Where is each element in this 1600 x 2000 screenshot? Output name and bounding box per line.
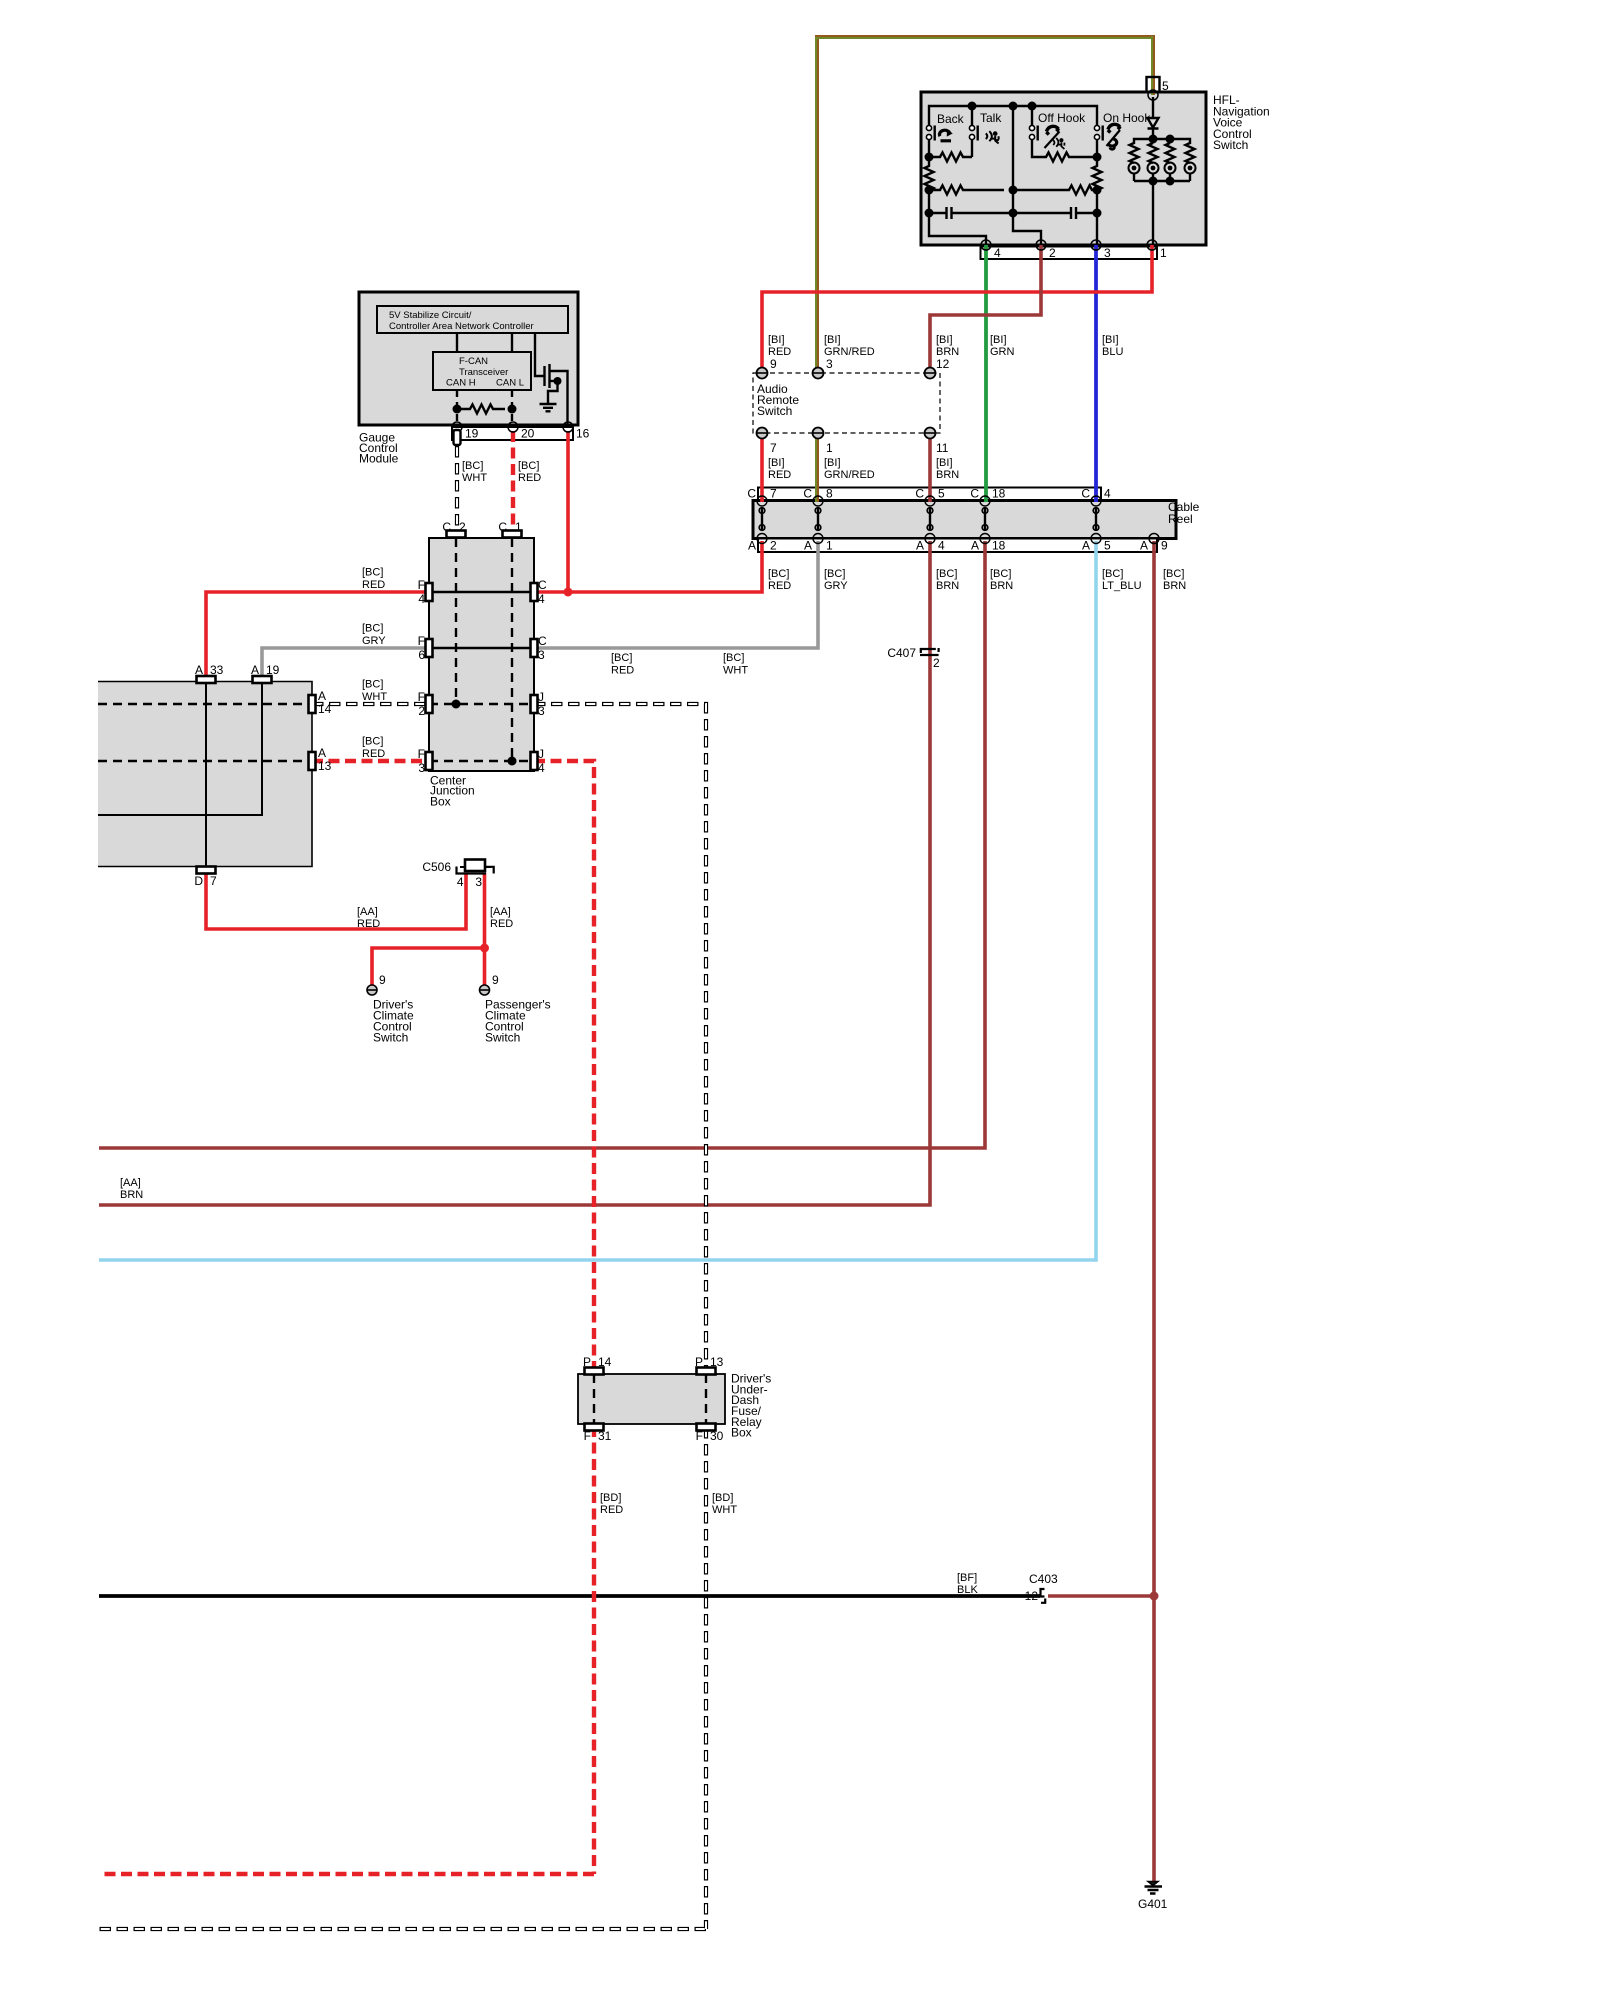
fuse box pin P13 [697,1368,716,1375]
left box pin A14 [309,695,316,713]
dashed wire C2 down [455,538,457,704]
cable reel C4/A5 terminals and pins [1091,496,1101,544]
capacitor (left, y=213) [929,207,1013,219]
junction (568,592) [564,588,573,597]
Gauge pin strip (pins 19,20,16) [452,427,573,440]
svg-text:A: A [916,539,924,553]
svg-text:BRN: BRN [936,469,959,481]
audio remote switch pin 12 [925,368,936,379]
svg-text:[BC]: [BC] [362,623,383,635]
dashed row to A14 [98,703,312,705]
svg-text:9: 9 [379,973,386,987]
terminal: passenger's climate control switch pin 9 [480,985,490,995]
wire [BI] BRN : audio pin11 to cable reel C5 [928,433,932,502]
svg-text:5: 5 [1162,79,1169,93]
svg-text:4: 4 [1104,487,1111,501]
svg-text:4: 4 [418,592,425,606]
fuse box pin F30 [697,1424,716,1431]
wire [BI] GRN/RED : audio pin3 to HFL pin5 (two-tone) [815,37,817,373]
wire [BI] GRN : HFL pin4 to cable reel C18 [984,245,988,502]
svg-text:[BI]: [BI] [768,457,785,469]
svg-text:C: C [915,487,924,501]
svg-text:6: 6 [418,648,425,662]
terminal HFL pin1 [1147,240,1157,250]
CJB pin J4 [531,752,538,770]
svg-text:1: 1 [515,520,522,534]
CJB pin C3 [531,639,538,657]
svg-text:F: F [418,690,425,704]
wire up to Talk switch [971,140,973,158]
wire [BC] BRN / [AA] BRN : cable reel A4 down through C407 to left edge [99,541,930,1205]
svg-text:[BC]: [BC] [824,568,845,580]
terminal gauge pin20 [508,422,518,432]
svg-text:[AA]: [AA] [490,906,511,918]
resistor (Back-Talk) [929,153,972,162]
Center Junction Box [429,538,534,771]
svg-text:BLK: BLK [957,1584,978,1596]
svg-text:[BC]: [BC] [1163,568,1184,580]
capacitor (right, y=213) [1013,207,1097,219]
wire 5V box to F-CAN (right) [511,333,513,352]
wire from Talk top to bus [971,106,973,126]
terminal circle pin5 [1148,90,1158,100]
svg-text:A: A [251,663,259,677]
svg-text:[BI]: [BI] [990,334,1007,346]
wire [BC] RED dashed : gauge pin20 to CJB C1 [511,431,515,530]
icon Back (return arrow) [940,130,951,141]
svg-text:Talk: Talk [980,111,1002,125]
resistor (horizontal bus y=190 right) [1013,186,1097,195]
wire F6-C3 [429,647,534,649]
switch Off Hook (contacts) [1031,106,1033,126]
left box pin D7 [197,867,216,874]
svg-text:13: 13 [318,759,332,773]
svg-text:1: 1 [1160,246,1167,260]
terminal: driver's climate control switch pin 9 [367,985,377,995]
svg-text:12: 12 [1025,1589,1039,1603]
svg-text:C: C [498,520,507,534]
audio remote switch pin 3 [813,368,824,379]
dashed wire F3-J4 [429,760,534,762]
svg-text:[BC]: [BC] [936,568,957,580]
icon On Hook (handset on cradle + slash) [1108,124,1121,132]
svg-text:P: P [583,1355,591,1369]
left box pin A13 [309,752,316,770]
CJB pin C2 [447,531,466,538]
svg-text:Controller Area Network Contro: Controller Area Network Controller [389,321,534,332]
svg-text:Box: Box [731,1426,752,1440]
resistor (Off Hook to On Hook column) [1032,140,1094,162]
left module box (partial, cut at page edge) [98,682,312,867]
svg-text:C: C [538,634,547,648]
wire from HFL pin5 to diode [1152,97,1154,117]
wire 5V box to transistor gate [535,333,544,376]
svg-text:F: F [418,578,425,592]
fuse box pin P14 [585,1368,604,1375]
wire left column 190-213 [928,190,930,213]
Cable Reel A pin strip [758,539,1157,553]
svg-text:[BC]: [BC] [723,652,744,664]
svg-text:9: 9 [770,357,777,371]
svg-text:30: 30 [710,1429,724,1443]
pin 19 connector stub [454,430,461,445]
svg-text:1: 1 [826,539,833,553]
transistor (output FET) [543,366,545,386]
svg-text:Reel: Reel [1168,512,1193,526]
terminal gauge pin19 [452,422,462,432]
CJB pin C4 [531,583,538,601]
resistor (vertical, Back branch) [925,157,934,194]
svg-text:J: J [538,690,544,704]
illumination branch 4: resistor + bulb [1186,143,1195,163]
svg-text:[BC]: [BC] [518,460,539,472]
Cable Reel box [753,501,1176,539]
wire F4-C4 [429,591,534,593]
svg-text:5: 5 [1104,539,1111,553]
wire [BC]/[BD] WHT dashed : CJB J3 to fuse box P13 and on to left edge [99,446,706,1929]
svg-text:13: 13 [710,1355,724,1369]
svg-text:4: 4 [457,875,464,889]
svg-text:F-CAN: F-CAN [459,356,488,367]
svg-text:Module: Module [359,451,399,465]
svg-text:[BC]: [BC] [1102,568,1123,580]
svg-text:C506: C506 [422,860,451,874]
svg-text:WHT: WHT [723,665,748,677]
svg-text:5V Stabilize Circuit/: 5V Stabilize Circuit/ [389,310,472,321]
svg-text:RED: RED [357,918,380,930]
wire center column to HFL pin2 [1013,106,1041,245]
svg-text:J: J [538,747,544,761]
icon Talk (speaking head) [986,131,992,141]
CJB pin F6 [426,639,433,657]
F-CAN Transceiver inner box [433,352,531,390]
wire to HFL pin4 [929,213,986,245]
lamp bus bottom [1134,180,1190,182]
wire below Back switch [928,140,930,158]
wire A33-D7 column [205,681,207,866]
terminal HFL pin2 [1036,240,1046,250]
svg-text:A: A [1082,539,1090,553]
svg-text:Transceiver: Transceiver [459,367,508,378]
svg-text:F: F [584,1429,591,1443]
svg-text:D: D [194,874,203,888]
svg-text:BRN: BRN [120,1189,143,1201]
node C1/J4 [508,757,517,766]
svg-text:A: A [971,539,979,553]
svg-text:[BI]: [BI] [936,334,953,346]
svg-text:2: 2 [933,656,940,670]
svg-text:7: 7 [210,874,217,888]
svg-text:GRY: GRY [362,635,386,647]
CJB pin F3 [426,752,433,770]
wire [BI] BLU : HFL pin3 to cable reel C4 [1094,245,1098,502]
node: off-hook tap [1028,102,1037,111]
junction (484.5,948) [480,944,489,953]
wire [BI] RED : HFL pin1 to audio pin9 [762,245,1152,373]
dashed CAN L lead [511,390,513,426]
svg-text:Switch: Switch [485,1030,520,1044]
svg-text:5: 5 [938,487,945,501]
HFL pin strip (pins 4,2,3,1) [981,247,1158,260]
svg-text:4: 4 [538,761,545,775]
svg-text:[BD]: [BD] [712,1492,733,1504]
wire A19 column [98,681,262,815]
svg-text:BLU: BLU [1102,346,1123,358]
svg-text:19: 19 [266,663,280,677]
svg-text:BRN: BRN [990,580,1013,592]
dashed CAN H lead [456,390,458,426]
terminal gauge pin16 [563,422,573,432]
svg-text:2: 2 [770,539,777,553]
svg-text:Switch: Switch [373,1030,408,1044]
svg-text:F: F [418,634,425,648]
svg-text:RED: RED [362,748,385,760]
svg-text:11: 11 [936,441,949,455]
svg-text:14: 14 [318,702,332,716]
svg-text:[BI]: [BI] [936,457,953,469]
dashed P14-F31 [593,1374,595,1424]
svg-text:[BC]: [BC] [768,568,789,580]
svg-text:3: 3 [538,704,545,718]
wire [BC] BRN / [AA] BRN : cable reel A18 to left edge [99,541,985,1148]
svg-text:[BI]: [BI] [1102,334,1119,346]
svg-text:[BF]: [BF] [957,1572,977,1584]
svg-text:RED: RED [611,665,634,677]
wire [BC] RED : left box A33 to CJB F4 [206,592,429,681]
Driver's Under-Dash Fuse/Relay Box [578,1374,725,1424]
svg-text:A: A [804,539,812,553]
svg-text:C407: C407 [887,646,916,660]
terminal HFL pin4 [981,240,991,250]
svg-text:A: A [1140,539,1148,553]
svg-text:GRN/RED: GRN/RED [824,469,875,481]
svg-text:RED: RED [600,1504,623,1516]
wire lamp bus to HFL pin1 [1152,181,1154,245]
svg-text:WHT: WHT [712,1504,737,1516]
svg-text:18: 18 [992,539,1006,553]
svg-text:A: A [195,663,203,677]
svg-text:Switch: Switch [757,404,792,418]
wire [BI] RED : audio pin7 to cable reel C7 [760,433,764,502]
dashed wire F2-J3 [429,703,534,705]
switch On Hook (contacts) [1094,125,1099,130]
svg-text:BRN: BRN [936,580,959,592]
svg-text:2: 2 [1049,246,1056,260]
svg-text:4: 4 [994,246,1001,260]
svg-text:[BC]: [BC] [362,567,383,579]
svg-text:[BC]: [BC] [990,568,1011,580]
svg-text:F: F [418,747,425,761]
cable reel C8/A1 terminals and pins [813,496,823,544]
svg-text:33: 33 [210,663,224,677]
svg-text:RED: RED [768,469,791,481]
wire [BF] BLK : left edge to C403 [99,1594,1040,1598]
svg-text:9: 9 [492,973,499,987]
svg-text:18: 18 [992,487,1006,501]
5V Stabilize Circuit / CAN Controller inner box [377,306,568,333]
svg-text:RED: RED [518,472,541,484]
svg-text:On Hook: On Hook [1103,111,1151,125]
resistor (vertical, On Hook branch) [1093,157,1102,194]
svg-text:19: 19 [465,427,479,441]
svg-text:A: A [318,746,326,760]
svg-text:F: F [696,1429,703,1443]
Gauge Control Module box [359,292,578,425]
lamp bus top [1134,139,1190,144]
HFL top bus wire [929,106,1097,125]
wire BRN : C403 to A9 wire [1048,1594,1154,1598]
svg-text:C: C [747,487,756,501]
svg-text:[BI]: [BI] [824,334,841,346]
wire [AA] RED : C506 pin3 to climate control switches [483,873,487,985]
svg-text:16: 16 [576,427,590,441]
CJB pin C1 [503,531,522,538]
cable reel C7/A2 terminals and pins [757,496,767,544]
svg-text:WHT: WHT [462,472,487,484]
svg-text:[BC]: [BC] [611,652,632,664]
wire [BC]/[BD] RED dashed : CJB J4 to fuse box P14 and on to left edge [534,761,594,1373]
illumination branch 2: resistor + bulb [1149,143,1158,163]
svg-text:BRN: BRN [1163,580,1186,592]
svg-text:[BC]: [BC] [462,460,483,472]
svg-text:LT_BLU: LT_BLU [1102,580,1142,592]
resistor (CAN termination) [457,405,505,414]
svg-text:C: C [442,520,451,534]
icon Off Hook (handset lifted + slash) [1046,126,1059,134]
node: talk tap [968,102,977,111]
cable reel C18/A18 terminals and pins [980,496,990,544]
junction (1154,1596) [1150,1592,1159,1601]
wire [BC] GRY : cable reel A1 to CJB C3 [534,541,818,648]
left box pin A19 [253,676,272,683]
wire 5V box to F-CAN (left) [456,333,458,352]
node C2/J3 [452,700,461,709]
svg-text:3: 3 [475,875,482,889]
resistor (horizontal bus y=190 left) [929,186,1004,195]
svg-text:C: C [803,487,812,501]
dashed P13-F30 [705,1374,707,1424]
svg-text:C: C [970,487,979,501]
svg-text:A: A [318,689,326,703]
svg-text:GRN: GRN [990,346,1015,358]
svg-text:G401: G401 [1138,1897,1168,1911]
cable reel A9 terminal [1149,534,1159,544]
svg-text:C: C [538,578,547,592]
CJB pin F2 [426,695,433,713]
svg-text:RED: RED [768,580,791,592]
svg-text:[AA]: [AA] [357,906,378,918]
cable reel C5/A4 terminals and pins [925,496,935,544]
svg-text:[BC]: [BC] [362,736,383,748]
svg-text:P: P [695,1355,703,1369]
svg-text:WHT: WHT [362,691,387,703]
svg-text:7: 7 [770,487,777,501]
svg-text:C403: C403 [1029,1572,1058,1586]
svg-text:[BC]: [BC] [362,679,383,691]
svg-text:GRY: GRY [824,580,848,592]
ground (inside gauge module) [540,404,557,411]
svg-text:[AA]: [AA] [120,1177,141,1189]
svg-text:2: 2 [459,520,466,534]
svg-text:[BD]: [BD] [600,1492,621,1504]
wire [AA] RED : left box D7 to C506 pin4 [206,869,466,929]
pin 5 connector (HFL top) [1147,77,1160,92]
wire [BC] RED : cable reel A2 to CJB C4 and gauge pin16 [534,541,762,592]
svg-text:CAN L: CAN L [496,378,524,389]
svg-text:[BI]: [BI] [768,334,785,346]
svg-text:C: C [1081,487,1090,501]
CJB pin J3 [531,695,538,713]
svg-text:4: 4 [938,539,945,553]
switch Talk (contacts) [969,125,974,130]
svg-text:4: 4 [538,592,545,606]
wire [BC] RED dashed : left box A13 to CJB F3 [312,759,429,763]
wire [BC] GRY : left box A19 to CJB F6 [262,648,429,681]
audio remote switch pin 7 [757,428,768,439]
svg-text:8: 8 [826,487,833,501]
audio remote switch pin 1 [813,428,824,439]
svg-text:12: 12 [936,357,950,371]
Cable Reel C pin strip [758,488,1101,501]
dashed wire C1 down [511,538,513,761]
svg-text:3: 3 [538,648,545,662]
wire [BI] GRN/RED lower : HFL pin2 to audio pin12 (maroon leg) [930,245,1041,373]
audio remote switch pin 9 [757,368,768,379]
svg-text:A: A [748,539,756,553]
svg-text:2: 2 [418,704,425,718]
svg-text:Box: Box [430,795,451,809]
terminal HFL pin3 [1091,240,1101,250]
HFL-Navigation Voice Control Switch box [921,92,1206,245]
diode (pin5 branch) [1148,118,1159,129]
svg-text:31: 31 [598,1429,612,1443]
svg-text:Back: Back [937,112,965,126]
wire [BI] GRN/RED : audio pin1 to cable reel C8 (two-tone) [815,433,817,502]
fuse box pin F31 [585,1424,604,1431]
Audio Remote Switch dashed box [753,373,940,433]
illumination branch 1: resistor + bulb [1130,143,1139,163]
illumination branch 3: resistor + bulb [1166,143,1175,163]
wire On Hook column to HFL pin3 [1096,190,1098,245]
wire [BC] BRN : cable reel A9 down to ground G401 [1152,541,1156,1882]
svg-text:RED: RED [362,579,385,591]
svg-text:[BI]: [BI] [824,457,841,469]
switch Back (contacts) [926,125,931,130]
svg-text:RED: RED [490,918,513,930]
dashed row to A13 [98,760,312,762]
CJB pin F4 [426,583,433,601]
svg-text:Off Hook: Off Hook [1038,111,1086,125]
wire [BC] LT_BLU : cable reel A5 to left edge [99,541,1096,1260]
svg-text:14: 14 [598,1355,612,1369]
svg-text:7: 7 [770,441,777,455]
svg-text:20: 20 [521,427,535,441]
node: center tap [1009,102,1018,111]
svg-text:Switch: Switch [1213,138,1248,152]
svg-text:3: 3 [418,761,425,775]
svg-text:9: 9 [1161,539,1168,553]
svg-text:CAN H: CAN H [446,378,476,389]
audio remote switch pin 11 [925,428,936,439]
left box pin A33 [197,676,216,683]
svg-text:3: 3 [1104,246,1111,260]
svg-text:3: 3 [826,357,833,371]
svg-text:1: 1 [826,441,833,455]
